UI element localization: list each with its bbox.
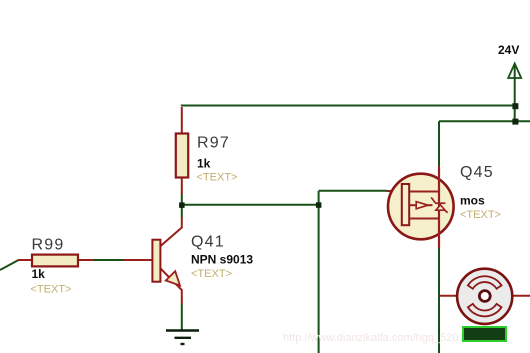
svg-text:R99: R99 — [32, 237, 65, 254]
svg-text:Q45: Q45 — [460, 164, 494, 181]
svg-text:Q41: Q41 — [191, 234, 225, 251]
svg-text:<TEXT>: <TEXT> — [31, 284, 72, 296]
svg-text:<TEXT>: <TEXT> — [460, 209, 501, 221]
svg-text:24V: 24V — [498, 43, 519, 57]
svg-text:NPN s9013: NPN s9013 — [191, 253, 253, 267]
svg-text:1k: 1k — [32, 267, 46, 281]
svg-text:1k: 1k — [197, 157, 211, 171]
svg-text:<TEXT>: <TEXT> — [197, 172, 238, 184]
svg-text:<TEXT>: <TEXT> — [191, 268, 232, 280]
svg-text:R97: R97 — [197, 135, 230, 152]
svg-text:mos: mos — [460, 194, 485, 208]
